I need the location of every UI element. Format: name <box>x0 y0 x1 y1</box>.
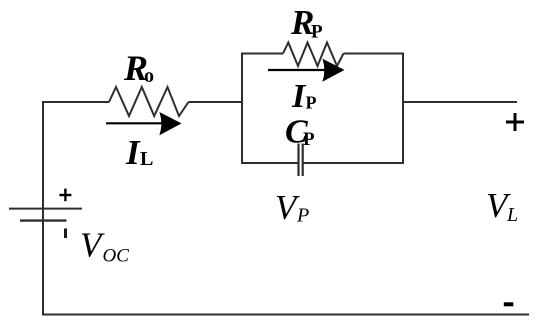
svg-text:I: I <box>125 133 141 172</box>
battery plus sign <box>59 189 71 202</box>
capacitor CP plates <box>299 144 303 177</box>
battery minus tick <box>64 229 67 239</box>
resistor R0 zigzag <box>109 87 189 116</box>
svg-text:OC: OC <box>103 246 130 267</box>
RC box left edge <box>241 54 243 164</box>
RC box bottom edge right segment <box>303 162 404 164</box>
current arrow IL <box>106 113 181 134</box>
resistor RP zigzag <box>283 43 344 67</box>
svg-text:P: P <box>311 22 323 43</box>
RC box right edge <box>402 54 404 164</box>
battery VOC bottom plate <box>20 219 67 221</box>
svg-text:P: P <box>303 129 315 150</box>
wire bottom rail <box>42 314 529 316</box>
wire output top <box>403 101 517 103</box>
battery VOC top plate <box>9 208 82 210</box>
RC box bottom edge left segment <box>241 162 299 164</box>
RC box top edge right segment <box>344 53 405 55</box>
svg-text:L: L <box>506 204 518 226</box>
svg-text:P: P <box>296 205 309 227</box>
output plus sign <box>506 113 524 131</box>
wire top rail left segment <box>42 101 109 103</box>
current arrow IP <box>268 60 343 81</box>
svg-text:P: P <box>306 93 317 113</box>
svg-text:L: L <box>140 148 153 170</box>
svg-text:o: o <box>144 65 154 87</box>
wire from R0 to RC box <box>189 101 243 103</box>
output minus sign <box>504 302 514 306</box>
RC box top edge left segment <box>241 53 283 55</box>
wire left vertical rail <box>42 102 44 315</box>
svg-text:V: V <box>80 226 105 265</box>
